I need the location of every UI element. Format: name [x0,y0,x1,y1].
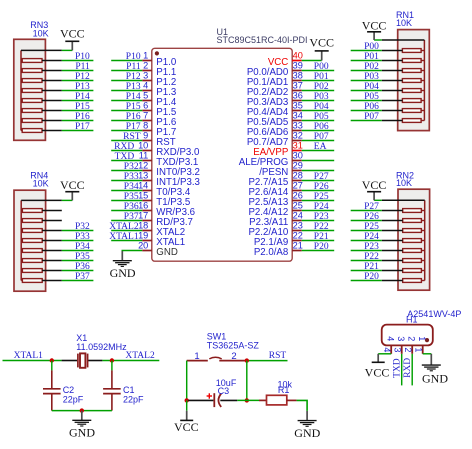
capacitor C2 [43,361,61,411]
R1 value label 10k [278,379,293,389]
U1 pin 3 P1.2 [142,71,176,88]
RN3 common pin wire to VCC [21,49,72,51]
connector H1 A2541WV-4P body [382,325,433,346]
svg-text:10: 10 [138,141,148,151]
svg-text:21: 21 [293,241,303,251]
node P32 label [124,162,139,172]
resistor element of RN3 (row P11) [21,69,62,73]
RN2 common pin wire to VCC [374,199,425,201]
resistor element of RN4 (row nc) [21,219,62,223]
node P25 label [364,222,379,232]
node P36 label [75,262,90,272]
U1 pin 6 P1.5 [142,101,176,118]
node P12 label [126,72,141,82]
svg-text:16: 16 [138,201,148,211]
C2 designator label [63,385,75,395]
RN3 value label 10K [33,28,49,38]
svg-text:P35: P35 [124,192,139,202]
U1 pin 36 P0.3/AD3 [247,91,303,108]
C2 value label 22pF [63,394,84,404]
switch SW1 TS3625A-SZ [187,357,247,360]
H1 pin name 1 inside [417,336,427,341]
wire (U1 pin 27) [302,190,335,192]
R1 designator label [278,385,290,395]
U1 pin 5 P1.4 [142,91,177,108]
svg-text:10K: 10K [396,178,412,188]
node P17 label [126,122,141,132]
svg-text:2: 2 [143,61,148,71]
svg-text:6: 6 [143,101,148,111]
resistor element of RN4 (row P33) [21,239,62,243]
RN4 designator label [30,171,48,181]
node P06 label [314,122,329,132]
svg-text:P15: P15 [75,102,90,112]
svg-text:P06: P06 [314,122,329,132]
node P11 label [75,62,90,72]
resistor element of RN1 (row P07) [382,119,425,123]
U1 pin 4 P1.3 [142,81,176,98]
node P20 label [314,242,329,252]
resistor R1 [259,395,297,405]
RN1 value label 10K [396,18,412,28]
resistor element of RN1 (row P05) [382,99,425,103]
power VCC symbol [174,411,199,435]
C1 value label 22pF [123,394,144,404]
svg-text:8: 8 [143,121,148,131]
svg-text:20: 20 [138,241,148,251]
wire U1 pin 20 to ground [122,251,142,252]
svg-text:C1: C1 [123,385,135,395]
U1 pin 13 INT1/P3.3 [138,171,200,188]
U1 pin 10 RXD/P3.0 [138,141,200,158]
SW1 designator label [207,331,227,341]
resistor element of RN1 (row P00) [382,49,425,53]
svg-text:31: 31 [293,141,303,151]
wire net XTAL2 (U1 pin 18) [111,230,142,232]
resistor element of RN2 (row P23) [382,249,425,253]
U1 designator label [217,27,229,37]
svg-text:P32: P32 [124,162,139,172]
svg-text:9: 9 [143,131,148,141]
H1 pin 1 stub [422,345,424,353]
X1 value label 11.0592MHz [76,342,127,352]
capacitor C1 [103,361,121,411]
RN2 designator label [396,170,414,180]
H1 pin 1 number [413,347,423,352]
U1 pin 37 P0.2/AD2 [247,81,303,98]
U1 pin 16 WR/P3.6 [138,201,195,218]
svg-text:P25: P25 [314,192,329,202]
wire SW1 pin 1 down [186,361,188,401]
node RST label [123,132,141,142]
U1 pin 24 P2.3/A11 [249,211,303,228]
svg-text:P37: P37 [124,212,139,222]
node P21 label [364,262,379,272]
wire net P14 (U1 pin 5) [111,100,142,102]
wire net P05 (RN1) [351,100,382,102]
wire C3 to R1 [237,399,259,401]
C3 plus sign [207,393,212,398]
H1 pin name 4 inside [386,336,396,341]
svg-text:TXD: TXD [392,358,402,378]
node XTAL1 label [14,351,44,361]
node P16 label [75,112,90,122]
svg-text:22pF: 22pF [63,394,84,404]
svg-text:P17: P17 [126,122,141,132]
H1 pin 4 stub [390,345,392,353]
node TXD label [392,358,402,378]
wire (U1 pin 29) [302,170,335,172]
wire (U1 pin 30) [302,160,335,162]
svg-text:14: 14 [138,181,148,191]
wire net P37 (RN4) [62,280,94,282]
node junction B [110,358,114,362]
svg-text:40: 40 [293,51,303,61]
U1 pin 25 P2.4/A12 [248,201,302,218]
svg-text:P15: P15 [126,102,141,112]
RN3 designator label [30,20,48,30]
node P27 label [364,202,379,212]
wire net P16 (RN3) [62,120,94,122]
svg-text:29: 29 [293,161,303,171]
svg-text:P22: P22 [314,222,329,232]
wire R1 to ground [297,400,308,411]
node P15 label [126,102,141,112]
svg-text:7: 7 [143,111,148,121]
svg-text:GND: GND [156,247,178,258]
wire net P26 (RN2) [351,220,382,222]
svg-text:P17: P17 [75,122,90,132]
node XTAL1 label [109,232,139,242]
node junction F [245,398,249,402]
node P26 label [314,182,329,192]
resistor element of RN4 (row nc) [21,209,62,213]
svg-text:VCC: VCC [60,26,85,40]
U1 pin 32 P0.7/AD7 [247,131,303,148]
svg-text:R1: R1 [278,385,290,395]
svg-text:19: 19 [138,231,148,241]
svg-text:23: 23 [293,221,303,231]
svg-text:P01: P01 [364,52,379,62]
svg-text:P12: P12 [75,72,90,82]
svg-text:1: 1 [143,51,148,61]
U1 pin 1 P1.0 [142,51,177,68]
svg-text:P00: P00 [364,42,379,52]
U1 pin 14 T0/P3.4 [138,181,191,198]
wire net P13 (U1 pin 4) [111,90,142,92]
H1 pin 2 stub [411,345,413,353]
wire net P21 (RN2) [351,270,382,272]
svg-text:22: 22 [293,231,303,241]
node P23 label [364,242,379,252]
U1 pin 18 XTAL2 [138,221,185,238]
U1 pin 8 P1.7 [142,121,176,138]
svg-text:3: 3 [392,347,402,352]
wire net P20 (RN2) [351,280,382,282]
U1 pin 1 marker dot [155,51,159,55]
svg-text:RXD: RXD [114,142,134,152]
wire net P35 (U1 pin 15) [111,200,142,202]
node P01 label [364,52,379,62]
svg-text:EA: EA [314,142,327,152]
svg-text:P03: P03 [314,92,329,102]
resistor element of RN4 (row P37) [21,279,62,283]
svg-text:P34: P34 [124,182,139,192]
svg-text:2: 2 [403,347,413,352]
node P16 label [126,112,141,122]
svg-text:P22: P22 [364,252,379,262]
node P23 label [314,212,329,222]
SW1 pin 1 number [194,351,199,362]
resistor element of RN2 (row P27) [382,209,425,213]
node P37 label [75,272,90,282]
node junction E [185,398,189,402]
capacitor C3 (polarized) [188,393,237,407]
node P13 label [126,82,141,92]
wire (U1 pin 38) [302,80,335,82]
wire net XTAL1 (U1 pin 19) [111,240,142,242]
svg-text:XTAL1: XTAL1 [109,232,139,242]
svg-text:4: 4 [382,347,392,352]
svg-text:P20: P20 [314,242,329,252]
svg-text:C3: C3 [218,386,230,396]
wire (U1 pin 39) [302,70,335,72]
X1 designator label [76,333,87,343]
wire net P13 (RN3) [62,90,94,92]
wire net P01 (RN1) [351,60,382,62]
H1 value label A2541WV-4P [407,309,461,319]
wire (U1 pin 35) [302,110,335,112]
U1 value label STC89C51RC-40I-PDI [217,35,308,45]
U1 pin 21 P2.0/A8 [254,241,303,258]
wire net P35 (RN4) [62,260,94,262]
U1 pin 11 TXD/P3.1 [139,151,199,168]
U1 pin 38 P0.1/AD1 [247,71,303,88]
svg-text:VCC: VCC [362,178,387,192]
wire net P00 (RN1) [351,50,382,52]
node P14 label [126,92,141,102]
svg-text:TXD: TXD [115,152,135,162]
svg-text:13: 13 [138,171,148,181]
svg-text:36: 36 [293,91,303,101]
wire net P33 (RN4) [62,240,94,242]
wire net P12 (U1 pin 3) [111,80,142,82]
U1 pin 26 P2.5/A13 [248,191,302,208]
U1 pin 30 ALE/PROG [239,151,303,168]
power VCC symbol [362,18,387,40]
node P10 label [75,52,90,62]
resistor element of RN1 (row P02) [382,69,425,73]
resistor element of RN1 (row P01) [382,59,425,63]
U1 pin 40 VCC [268,51,303,68]
resistor element of RN1 (row P03) [382,79,425,83]
resistor element of RN2 (row P24) [382,239,425,243]
resistor element of RN3 (row P14) [21,99,62,103]
wire net TXD (H1 pin 3) [401,354,403,386]
node P04 label [364,82,379,92]
svg-text:P01: P01 [314,72,329,82]
crystal X1 [62,353,103,367]
node EA label [314,142,327,152]
wire (U1 pin 24) [302,220,335,222]
wire net P03 (RN1) [351,80,382,82]
RN4 common bus [20,200,22,280]
wire net P33 (U1 pin 13) [111,180,142,182]
svg-text:P04: P04 [314,102,329,112]
svg-text:P10: P10 [75,52,90,62]
U1 pin 22 P2.1/A9 [254,231,303,248]
svg-text:38: 38 [293,71,303,81]
svg-text:12: 12 [138,161,148,171]
wire net P16 (U1 pin 7) [111,120,142,122]
U1 pin 39 P0.0/AD0 [247,61,303,78]
wire net P32 (U1 pin 12) [111,170,142,172]
node P20 label [364,272,379,282]
svg-text:3: 3 [143,71,148,81]
node P21 label [314,232,329,242]
svg-text:P25: P25 [364,222,379,232]
U1 pin 19 XTAL1 [138,231,185,248]
U1 pin 7 P1.6 [142,111,176,128]
wire net P37 (U1 pin 17) [111,220,142,222]
H1 pin 3 stub [401,345,403,353]
resistor element of RN2 (row P22) [382,259,425,263]
svg-text:P05: P05 [314,112,329,122]
wire H1 pin 1 to ground [423,353,432,355]
resistor element of RN3 (row P16) [21,119,62,123]
node P05 label [314,112,329,122]
svg-text:34: 34 [293,111,303,121]
wire net XTAL2 [102,360,159,362]
wire net RST (U1 pin 9) [111,140,142,142]
wire net P27 (RN2) [351,210,382,212]
RN3 common bus [20,50,22,130]
svg-text:P33: P33 [75,232,90,242]
node P25 label [314,192,329,202]
node P11 label [126,62,141,72]
node P35 label [75,252,90,262]
resistor element of RN2 (row P25) [382,229,425,233]
wire net P10 (RN3) [62,60,94,62]
H1 pin 4 number [382,347,392,352]
svg-text:10K: 10K [396,18,412,28]
U1 pin 27 P2.6/A14 [248,181,302,198]
wire (U1 pin 37) [302,90,335,92]
resistor element of RN3 (row P17) [21,129,62,133]
wire (U1 pin 33) [302,130,335,132]
svg-text:P04: P04 [364,82,379,92]
svg-text:17: 17 [138,211,148,221]
svg-text:27: 27 [293,181,303,191]
svg-text:P21: P21 [364,262,379,272]
resistor element of RN3 (row P10) [21,59,62,63]
RN4 common pin wire to VCC [21,199,72,201]
svg-text:33: 33 [293,121,303,131]
node P10 label [126,52,141,62]
node P33 label [124,172,139,182]
wire (U1 pin 25) [302,210,335,212]
svg-text:P14: P14 [126,92,141,102]
RN1 common pin wire to VCC [374,39,424,41]
svg-text:RXD: RXD [403,358,413,378]
svg-text:10K: 10K [33,28,49,38]
wire net P25 (RN2) [351,230,382,232]
svg-text:P36: P36 [75,262,90,272]
U1 pin 35 P0.4/AD4 [247,101,303,118]
RN2 common bus [424,200,426,280]
svg-text:P13: P13 [126,82,141,92]
wire net P12 (RN3) [62,80,94,82]
wire SW1 pin 2 down [246,361,248,401]
svg-text:P14: P14 [75,92,90,102]
node P22 label [314,222,329,232]
node P17 label [75,122,90,132]
U1 pin 34 P0.5/AD5 [247,111,303,128]
svg-text:P24: P24 [314,202,329,212]
svg-text:P03: P03 [364,72,379,82]
svg-text:15: 15 [138,191,148,201]
svg-text:1: 1 [194,351,199,362]
svg-text:P34: P34 [75,242,90,252]
svg-text:25: 25 [293,201,303,211]
node P03 label [314,92,329,102]
svg-text:P11: P11 [75,62,90,72]
node P07 label [314,132,329,142]
wire net P15 (RN3) [62,110,94,112]
resistor element of RN3 (row P15) [21,109,62,113]
node P35 label [124,192,139,202]
node P24 label [364,232,379,242]
node P26 label [364,212,379,222]
svg-text:P2.0/A8: P2.0/A8 [254,247,288,258]
H1 pin 3 number [392,347,402,352]
wire net P10 (U1 pin 1) [111,60,142,62]
SW1 pin 2 number [231,351,236,362]
svg-text:XTAL2: XTAL2 [125,351,155,361]
svg-text:4: 4 [386,336,396,341]
resistor element of RN2 (row P21) [382,269,425,273]
wire net RXD (U1 pin 10) [111,150,142,152]
U1 pin 17 RD/P3.7 [138,211,193,228]
svg-text:18: 18 [138,221,148,231]
wire net P17 (U1 pin 8) [111,130,142,132]
svg-text:STC89C51RC-40I-PDI: STC89C51RC-40I-PDI [217,35,308,45]
svg-text:30: 30 [293,151,303,161]
power VCC symbol [60,178,85,201]
wire net P14 (RN3) [62,100,94,102]
svg-text:P07: P07 [364,112,379,122]
svg-text:24: 24 [293,211,303,221]
node P02 label [364,62,379,72]
node P22 label [364,252,379,262]
RN4 value label 10K [33,178,49,188]
wire net P34 (RN4) [62,250,94,252]
C3 value label 10uF [216,378,237,388]
wire net P02 (RN1) [351,70,382,72]
node RXD label [403,358,413,378]
U1 pin 2 P1.1 [142,61,176,78]
svg-text:1: 1 [413,347,423,352]
node P24 label [314,202,329,212]
C1 designator label [123,385,135,395]
node P33 label [75,232,90,242]
wire net P11 (RN3) [62,70,94,72]
svg-text:26: 26 [293,191,303,201]
H1 pin 2 number [403,347,413,352]
U1 pin 33 P0.6/AD6 [247,121,303,138]
node XTAL2 label [109,222,139,232]
node P12 label [75,72,90,82]
